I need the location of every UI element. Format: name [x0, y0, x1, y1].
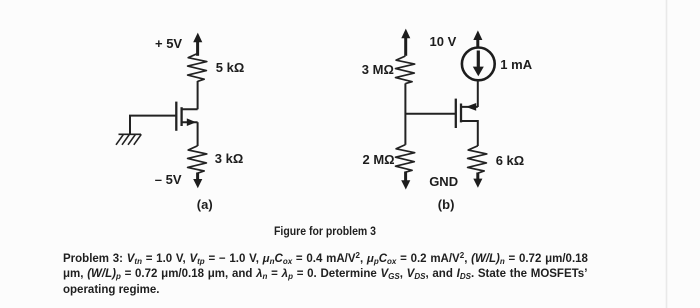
- 10V supply arrow (left branch): [401, 29, 410, 56]
- transistor M2 drain leg: [461, 121, 478, 146]
- +5V supply arrow: [193, 33, 202, 56]
- label GND: [429, 175, 458, 188]
- transistor M2 channel bar: [460, 104, 462, 123]
- wire: 3M bottom to 2M top (gate node): [404, 83, 406, 144]
- current source I1 circle: [462, 48, 495, 81]
- label 6 kOhm: [496, 154, 525, 167]
- transistor M1 gate bar: [175, 102, 177, 131]
- label 10 V: [430, 35, 457, 48]
- ground symbol (earth): [116, 134, 141, 145]
- current source I1 inner arrow (downward): [473, 51, 484, 77]
- wire: gate to ground: [130, 116, 176, 135]
- 10V supply arrow (current source branch): [473, 30, 482, 47]
- wire: gate node to gate bar: [405, 113, 455, 115]
- wire: source to 3k resistor: [197, 122, 199, 146]
- label (a): [197, 198, 213, 211]
- resistor 5 kOhm: [188, 54, 207, 82]
- label +5V: [155, 37, 182, 50]
- label -5V: [155, 173, 182, 186]
- figure caption: [274, 224, 376, 238]
- problem text line 3: [63, 284, 160, 296]
- page scan seam line: [666, 0, 668, 308]
- label 3 kOhm: [215, 152, 244, 165]
- label 5 kOhm: [216, 61, 245, 74]
- transistor M1 source leg with NMOS arrow: [182, 121, 198, 123]
- transistor M1 drain leg: [182, 108, 198, 110]
- label (b): [438, 198, 455, 211]
- GND arrow (left branch): [401, 172, 410, 190]
- transistor M2 source leg with PMOS arrow: [461, 106, 478, 108]
- problem text line 2: [63, 268, 587, 280]
- -5V supply arrow: [193, 173, 202, 189]
- label 1 mA: [500, 58, 532, 71]
- transistor M1 channel bar: [180, 107, 182, 126]
- resistor 2 MOhm: [396, 145, 415, 173]
- wire: 5k bottom to drain bend: [197, 81, 199, 109]
- GND arrow (right branch): [473, 173, 482, 188]
- resistor 3 kOhm: [188, 146, 207, 173]
- resistor 6 kOhm: [468, 146, 487, 173]
- transistor M2 gate bar: [455, 99, 457, 128]
- label 3 MOhm: [362, 63, 394, 76]
- wire: current source to transistor source leg: [477, 80, 479, 107]
- resistor 3 MOhm: [396, 56, 415, 84]
- problem text line 1: [63, 253, 588, 265]
- label 2 MOhm: [363, 153, 395, 166]
